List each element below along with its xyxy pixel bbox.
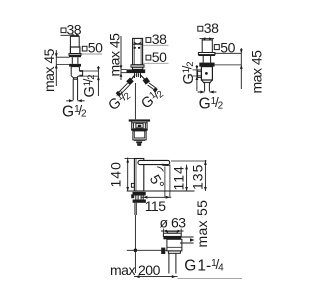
valve body box [70, 47, 80, 54]
elbow bottom chamfer [71, 76, 78, 79]
svg-text:38: 38 [204, 20, 219, 36]
dimension line 38 [200, 38, 215, 40]
label square 38 [146, 38, 151, 43]
stem [203, 56, 210, 63]
extension line to max45 bottom [215, 64, 242, 66]
svg-text:5°: 5° [146, 172, 167, 192]
drain second dark bar [131, 128, 148, 130]
clamp square [161, 248, 165, 254]
stream arc [157, 167, 163, 172]
drain upper body [132, 122, 147, 129]
locknut [69, 64, 81, 67]
svg-text:G1/2: G1/2 [105, 86, 134, 114]
gray underline G1-1/4 [178, 277, 243, 279]
supply pipe [73, 79, 77, 100]
svg-text:135: 135 [189, 164, 205, 190]
140 dimension [127, 158, 129, 192]
svg-text:G1/2: G1/2 [138, 85, 167, 113]
pop-up rod [134, 83, 136, 119]
svg-text:114: 114 [171, 165, 187, 190]
right hose [148, 83, 157, 90]
max45 dimension [120, 36, 122, 80]
drain body [167, 239, 182, 251]
valve body box [201, 67, 212, 80]
locknut dark [133, 200, 146, 203]
lever tip [131, 183, 134, 187]
svg-text:G1/2: G1/2 [199, 95, 224, 113]
max45 dimension line [55, 50, 57, 86]
gray underline 50 [143, 62, 169, 64]
dimension line 38 [61, 34, 80, 36]
aerator [162, 164, 169, 166]
label square 38 [198, 26, 203, 31]
vertical extension from spout tip [169, 165, 171, 198]
G1/2 dim arrows bottom [66, 100, 84, 102]
svg-text:max 45: max 45 [107, 33, 123, 77]
stem [72, 57, 78, 64]
base plates [131, 65, 144, 67]
63 dimension line [161, 230, 184, 232]
nipple dimension [196, 65, 198, 91]
hose lines [135, 203, 136, 215]
label square 50 [146, 55, 151, 60]
drain cup step [168, 251, 180, 253]
supply pipe [205, 83, 210, 91]
svg-text:50: 50 [152, 49, 167, 65]
handle dot [205, 72, 208, 75]
135 dimension [204, 160, 206, 191]
locknut [199, 63, 214, 67]
aerator ticks [134, 47, 136, 49]
handle groove arc [134, 42, 141, 44]
right hose stub [140, 75, 145, 80]
svg-text:G1-1/4: G1-1/4 [184, 257, 224, 275]
left nipple [198, 70, 202, 77]
G1/2 dim arrows [198, 91, 217, 93]
svg-text:G1/2: G1/2 [180, 62, 197, 85]
drain tail body [133, 131, 146, 140]
svg-text:max 45: max 45 [41, 48, 57, 92]
flange [198, 53, 215, 55]
tailpipe [169, 253, 176, 273]
spout [138, 160, 170, 164]
deck escutcheon dark [127, 69, 146, 73]
left hose [117, 83, 130, 96]
max200 dimension [134, 276, 178, 278]
drain flange plate [167, 231, 177, 233]
extension line to max45 top [214, 52, 241, 54]
valve neck [202, 39, 212, 53]
svg-text:140: 140 [108, 161, 124, 187]
svg-text:G1/2: G1/2 [81, 75, 98, 98]
svg-text:50: 50 [88, 40, 103, 56]
body bottom chamfer [201, 80, 212, 83]
top cap line [133, 43, 143, 45]
mounting shank block [135, 73, 141, 78]
faucet body [133, 38, 143, 64]
115 dimension [141, 196, 171, 198]
label square 50 [214, 45, 219, 50]
shank [136, 196, 143, 200]
gray underline 38 [143, 44, 169, 46]
svg-text:max 45: max 45 [249, 50, 265, 94]
drain top flange dark [129, 119, 150, 121]
label square 38 [61, 28, 66, 33]
drain bottom stem [136, 141, 142, 143]
svg-text:max 55: max 55 [194, 200, 210, 248]
flange [69, 54, 81, 56]
svg-text:G1/2: G1/2 [62, 103, 87, 121]
svg-text:115: 115 [145, 198, 167, 214]
elbow body [71, 67, 79, 76]
svg-text:38: 38 [152, 31, 167, 47]
svg-text:200: 200 [138, 262, 161, 278]
svg-text:max: max [110, 262, 135, 278]
deck line [127, 190, 195, 192]
114 dimension [186, 165, 188, 191]
horizontal rod [127, 249, 167, 251]
left hose connector nut [126, 77, 134, 85]
valve neck [70, 36, 79, 47]
max45 dimension line [240, 48, 242, 89]
side outlet [78, 70, 83, 76]
outlet dimension [97, 66, 99, 96]
junction dot [134, 249, 138, 253]
left hose stub [131, 75, 135, 80]
max55 deck arrow lines [180, 237, 194, 243]
svg-text:ø 63: ø 63 [160, 215, 187, 231]
gray underline 50 [81, 53, 102, 55]
label square 50 [82, 46, 87, 51]
faucet body side [134, 159, 143, 192]
right hose connector nut [143, 77, 151, 85]
base plate dark [133, 192, 146, 196]
